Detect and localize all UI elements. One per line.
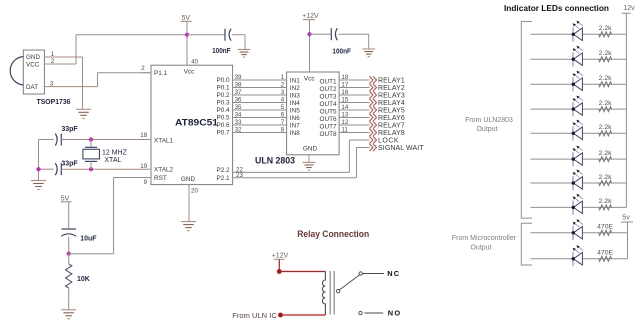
ground under TSOP [76, 109, 91, 118]
svg-text:P0.5: P0.5 [216, 115, 230, 122]
svg-text:RELAY2: RELAY2 [378, 85, 405, 92]
label 33pF bottom [61, 160, 78, 167]
pin number 2 [281, 82, 285, 89]
pin name P0.1 [216, 85, 230, 92]
junction node RST [67, 252, 71, 256]
svg-text:P0.7: P0.7 [216, 130, 230, 137]
svg-text:NO: NO [388, 309, 402, 318]
capacitor C1 33pF top [39, 134, 92, 146]
LED D4 [572, 96, 583, 117]
power 5v bus [621, 214, 633, 258]
wire P0.1 to IN2 [233, 87, 287, 89]
svg-text:P0.1: P0.1 [216, 85, 230, 92]
terminal NC [359, 269, 400, 278]
pin name ULN Vcc [304, 75, 315, 82]
svg-text:5: 5 [281, 104, 285, 111]
pin number 40 Vcc [191, 59, 198, 66]
pin number 37 [235, 89, 242, 96]
ground under MCU [181, 222, 196, 231]
pin name IN5 [290, 107, 300, 114]
pin number 23 [236, 172, 243, 179]
svg-text:From Microcontroller: From Microcontroller [452, 235, 517, 242]
pin name XTAL2 [154, 167, 174, 174]
terminal NO [359, 309, 402, 318]
wire P0.0 to IN1 [233, 79, 287, 81]
svg-text:Relay Connection: Relay Connection [297, 229, 369, 240]
LED D3 [572, 71, 583, 92]
svg-text:1: 1 [281, 74, 285, 81]
svg-text:2.2k: 2.2k [599, 50, 612, 57]
pin number 19 XTAL2 [140, 163, 147, 170]
wire P2.1 to SIGNAL WAIT [233, 148, 370, 178]
svg-text:ULN 2803: ULN 2803 [255, 156, 295, 166]
svg-text:From ULN2803: From ULN2803 [465, 117, 513, 124]
svg-text:OUT7: OUT7 [320, 123, 337, 130]
svg-text:Vcc: Vcc [184, 69, 195, 76]
junction node 5V rail [185, 33, 189, 37]
net flag RELAY3 [370, 91, 405, 99]
svg-text:RELAY3: RELAY3 [378, 92, 405, 99]
svg-text:3: 3 [281, 89, 285, 96]
wire LED row 1 [531, 33, 627, 35]
LED D6 [572, 146, 583, 167]
wire +12V to coil top [279, 271, 325, 273]
relay coil L1 [322, 272, 325, 316]
svg-text:From ULN IC: From ULN IC [232, 313, 276, 320]
svg-text:4: 4 [281, 97, 285, 104]
pin number 20 GND [191, 188, 198, 195]
capacitor 100nF left [225, 29, 231, 41]
wire XTAL2 net [91, 168, 151, 170]
pin number 38 [235, 82, 242, 89]
power 5V supply top [181, 15, 192, 65]
LED D2 [572, 46, 583, 67]
wire P0.3 to IN4 [233, 102, 287, 104]
pin name RST [154, 175, 167, 182]
wire OUT6 to RELAY6 [339, 117, 369, 119]
pin number 9 RST [144, 179, 148, 186]
pin name XTAL1 [154, 137, 174, 144]
junction node From ULN IC [278, 313, 283, 318]
pin name OUT6 [320, 116, 337, 123]
svg-text:VCC: VCC [26, 61, 40, 68]
wire LED row 10 [531, 258, 628, 260]
svg-text:100nF: 100nF [212, 48, 231, 55]
pin number 4 [281, 97, 285, 104]
pin number 39 [235, 74, 242, 81]
svg-text:Vcc: Vcc [304, 75, 315, 82]
wire OUT2 to RELAY2 [339, 87, 369, 89]
pin number 22 [236, 167, 243, 174]
wire OUT1 to RELAY1 [339, 79, 369, 81]
driver U2 ULN2803 body [287, 72, 340, 155]
svg-text:IN6: IN6 [290, 115, 300, 122]
pin number 1 [281, 74, 285, 81]
svg-text:GND: GND [303, 146, 318, 153]
pin number 5 [281, 104, 285, 111]
power 5V supply reset [61, 195, 72, 229]
svg-text:470E: 470E [597, 250, 613, 257]
label From Microcontroller Output [452, 235, 517, 252]
svg-text:7: 7 [281, 119, 285, 126]
pin number 33 [235, 119, 242, 126]
svg-text:2.2k: 2.2k [599, 174, 612, 181]
wire 100nF to ground [232, 35, 245, 50]
ground under 10K [61, 310, 76, 319]
svg-text:IN4: IN4 [290, 100, 300, 107]
label 100nF left [212, 48, 231, 55]
LED D5 [572, 120, 583, 141]
pin name IN7 [290, 122, 300, 129]
svg-text:Output: Output [476, 126, 497, 133]
pin name ULN GND [303, 146, 318, 153]
pin name GND [181, 176, 196, 183]
wire ULN GND to ground [308, 155, 310, 162]
net flag RELAY4 [370, 99, 405, 107]
svg-text:P0.3: P0.3 [216, 100, 230, 107]
wire TSOP GND pin1 to ground [44, 57, 82, 109]
pin name P0.7 [216, 130, 230, 137]
resistor 470E row 9 [597, 224, 613, 236]
pin number 2 P1.1 [141, 65, 151, 73]
pin number 2 [51, 58, 55, 65]
svg-text:10K: 10K [77, 276, 90, 283]
net flag RELAY5 [370, 106, 405, 114]
resistor 2.2k row 5 [599, 124, 613, 136]
wire P2.2 to LOCK [233, 140, 370, 172]
pin name OUT1 [320, 78, 337, 85]
pin number 34 [235, 112, 242, 119]
svg-text:OUT2: OUT2 [320, 86, 337, 93]
pin number 18 XTAL1 [140, 132, 147, 139]
resistor 2.2k row 8 [599, 198, 613, 210]
svg-text:IN7: IN7 [290, 122, 300, 129]
svg-text:2.2k: 2.2k [599, 100, 612, 107]
svg-text:SIGNAL WAIT: SIGNAL WAIT [378, 145, 424, 152]
wire ULN IC to coil bottom [281, 314, 326, 316]
svg-text:GND: GND [26, 54, 40, 61]
label 12 MHZ XTAL [102, 149, 128, 164]
svg-text:2.2k: 2.2k [599, 198, 612, 205]
wire TSOP DAT pin3 to P1.1 [44, 73, 151, 87]
ground right of 100nF right [362, 49, 375, 57]
net flag RELAY6 [370, 114, 405, 122]
svg-text:100nF: 100nF [332, 48, 351, 55]
capacitor 100nF right [331, 28, 337, 40]
svg-text:2: 2 [281, 82, 285, 89]
pin name OUT3 [320, 93, 337, 100]
svg-text:470E: 470E [597, 224, 613, 231]
pin name P2.2 [216, 167, 230, 174]
resistor 2.2k row 3 [599, 75, 613, 87]
label 10uF [80, 235, 97, 242]
pin number 3 [281, 89, 285, 96]
svg-text:P0.0: P0.0 [216, 77, 230, 84]
svg-text:18: 18 [140, 132, 147, 139]
svg-text:RELAY4: RELAY4 [378, 100, 405, 107]
power +12V relay [272, 253, 289, 272]
pin name P0.3 [216, 100, 230, 107]
LED D10 [572, 245, 583, 266]
pin name P1.1 [154, 70, 168, 77]
pin number 13 [341, 112, 348, 119]
pin name P0.2 [216, 92, 230, 99]
junction node XTAL1 [89, 137, 93, 141]
LED D1 [572, 21, 583, 42]
wire LED row 3 [531, 83, 627, 85]
pin number 16 [341, 89, 348, 96]
net flag LOCK [370, 136, 400, 144]
label From ULN IC [232, 313, 276, 320]
wire OUT5 to RELAY5 [339, 109, 369, 111]
svg-text:RST: RST [154, 175, 167, 182]
wire P0.2 to IN3 [233, 94, 287, 96]
ground right of 100nF left [238, 50, 251, 58]
svg-text:RELAY5: RELAY5 [378, 107, 405, 114]
svg-text:OUT8: OUT8 [320, 131, 337, 138]
wire P0.5 to IN6 [233, 117, 287, 119]
svg-text:RELAY7: RELAY7 [378, 122, 405, 129]
pin number 15 [341, 97, 348, 104]
resistor 2.2k row 2 [599, 50, 613, 62]
ground under ULN [303, 162, 316, 170]
pin number 36 [235, 97, 242, 104]
pin number 17 [341, 82, 348, 89]
svg-text:9: 9 [144, 179, 148, 186]
pin number 8 [281, 127, 285, 134]
svg-text:XTAL1: XTAL1 [154, 137, 174, 144]
title Relay Connection [297, 229, 369, 240]
wire XTAL1 net [91, 139, 151, 141]
wire 5V rail to 100nF [187, 34, 225, 36]
switch pivot [337, 290, 340, 293]
svg-text:10uF: 10uF [80, 235, 97, 242]
resistor 2.2k row 6 [599, 150, 613, 162]
pin number 14 [341, 104, 348, 111]
svg-text:40: 40 [191, 59, 198, 66]
svg-text:12v: 12v [623, 5, 635, 12]
net flag RELAY1 [370, 76, 405, 84]
microcontroller U1 AT89C51 body [151, 65, 233, 184]
svg-text:IN2: IN2 [290, 85, 300, 92]
resistor 470E row 10 [597, 250, 613, 262]
pin name P2.1 [216, 175, 230, 182]
svg-text:LOCK: LOCK [378, 137, 399, 144]
pin name IN3 [290, 92, 300, 99]
svg-text:TSOP1736: TSOP1736 [37, 97, 71, 106]
svg-text:OUT4: OUT4 [320, 101, 337, 108]
bracket From ULN2803 outputs [521, 22, 532, 219]
wire P0.7 to IN8 [233, 132, 287, 134]
label From ULN2803 Output [465, 117, 513, 133]
net flag RELAY7 [370, 121, 405, 129]
svg-text:RELAY6: RELAY6 [378, 115, 405, 122]
pin name IN8 [290, 130, 300, 137]
wire LED row 5 [531, 132, 627, 134]
svg-text:20: 20 [191, 188, 198, 195]
wire MCU GND pin20 down [188, 185, 190, 221]
svg-text:OUT1: OUT1 [320, 78, 337, 85]
svg-text:GND: GND [181, 176, 196, 183]
svg-text:IN1: IN1 [290, 77, 300, 84]
svg-text:P2.2: P2.2 [216, 167, 230, 174]
net flag RELAY8 [370, 129, 405, 137]
bracket From Microcontroller outputs [521, 223, 532, 265]
svg-text:OUT3: OUT3 [320, 93, 337, 100]
LED D7 [572, 170, 583, 191]
wire +12V rail to 100nF right [310, 33, 332, 35]
LED D8 [572, 194, 583, 215]
svg-text:2.2k: 2.2k [599, 150, 612, 157]
svg-text:8: 8 [281, 127, 285, 134]
svg-text:P0.2: P0.2 [216, 92, 230, 99]
wire OUT7 to RELAY7 [339, 124, 369, 126]
wire LED row 9 [531, 232, 628, 234]
pin name IN1 [290, 77, 300, 84]
pin number 6 [281, 112, 285, 119]
pin number 3 [50, 81, 54, 88]
svg-text:2.2k: 2.2k [599, 25, 612, 32]
svg-text:12 MHZ: 12 MHZ [102, 149, 128, 156]
svg-text:Indicator LEDs connection: Indicator LEDs connection [504, 3, 609, 13]
svg-text:P1.1: P1.1 [154, 70, 168, 77]
junction node relay +12V [277, 269, 282, 274]
pin name IN2 [290, 85, 300, 92]
label 33pF top [61, 126, 78, 133]
wire P0.4 to IN5 [233, 109, 287, 111]
svg-text:33pF: 33pF [61, 160, 78, 167]
pin name OUT5 [320, 108, 337, 115]
wire LED row 2 [531, 58, 627, 60]
switch arm [340, 275, 360, 290]
net flag RELAY2 [370, 84, 405, 92]
label 10K [77, 276, 90, 283]
pin number 11 [341, 127, 348, 134]
power +12V supply [302, 13, 319, 72]
pin name P0.5 [216, 115, 230, 122]
svg-text:P2.1: P2.1 [216, 175, 230, 182]
LED D9 [572, 219, 583, 240]
wire LED row 4 [531, 108, 627, 110]
svg-text:IN8: IN8 [290, 130, 300, 137]
pin number 7 [281, 119, 285, 126]
pin number 35 [235, 104, 242, 111]
svg-text:OUT5: OUT5 [320, 108, 337, 115]
wire OUT8 to RELAY8 [339, 132, 369, 134]
label ULN 2803 [255, 156, 295, 166]
svg-text:NC: NC [387, 269, 400, 278]
svg-text:RELAY1: RELAY1 [378, 77, 405, 84]
resistor 2.2k row 4 [599, 100, 613, 112]
label 100nF right [332, 48, 351, 55]
svg-text:33pF: 33pF [61, 126, 78, 133]
pin name Vcc [184, 69, 195, 76]
svg-text:DAT: DAT [26, 84, 38, 91]
wire 100nF right to ground [339, 34, 369, 48]
power 12v bus [622, 5, 635, 207]
pin name OUT2 [320, 86, 337, 93]
net flag SIGNAL WAIT [370, 144, 425, 152]
pin name OUT8 [320, 131, 337, 138]
svg-text:IN5: IN5 [290, 107, 300, 114]
junction node XTAL2 [89, 167, 93, 171]
capacitor C2 33pF bottom [39, 163, 92, 175]
svg-text:XTAL: XTAL [104, 157, 121, 164]
resistor R1 10K [66, 254, 72, 310]
svg-text:XTAL2: XTAL2 [154, 167, 174, 174]
capacitor C3 10uF [61, 229, 76, 254]
ground under 33pF rail [31, 181, 46, 190]
svg-text:2.2k: 2.2k [599, 75, 612, 82]
pin number 12 [341, 119, 348, 126]
svg-text:OUT6: OUT6 [320, 116, 337, 123]
pin name OUT4 [320, 101, 337, 108]
wire left rail of 33pF caps to ground [38, 140, 40, 181]
wire P0.6 to IN7 [233, 124, 287, 126]
relay core lines [330, 271, 334, 315]
pin number 1 [51, 51, 55, 58]
pin number 32 [235, 127, 242, 134]
svg-text:Output: Output [470, 245, 491, 252]
wire OUT4 to RELAY4 [339, 102, 369, 104]
wire OUT3 to RELAY3 [339, 94, 369, 96]
svg-text:2: 2 [141, 65, 145, 72]
svg-text:IN3: IN3 [290, 92, 300, 99]
pin number 18 [341, 74, 348, 81]
wire TSOP VCC pin2 to 5V rail [44, 35, 187, 64]
title Indicator LEDs connection [504, 3, 609, 13]
svg-text:2.2k: 2.2k [599, 124, 612, 131]
pin name P0.4 [216, 107, 230, 114]
pin name P0.6 [216, 122, 230, 129]
svg-text:+12V: +12V [272, 253, 289, 260]
svg-text:P0.6: P0.6 [216, 122, 230, 129]
IR receiver TSOP1736 [10, 50, 44, 94]
pin name P0.0 [216, 77, 230, 84]
label TSOP1736 [37, 97, 71, 106]
pin name IN6 [290, 115, 300, 122]
junction node 33pF ground rail [36, 167, 40, 171]
svg-text:P0.4: P0.4 [216, 107, 230, 114]
crystal X1 12MHZ [83, 140, 100, 170]
svg-text:RELAY8: RELAY8 [378, 130, 405, 137]
svg-text:5v: 5v [622, 214, 630, 221]
resistor 2.2k row 1 [599, 25, 613, 37]
wire LED row 7 [531, 182, 627, 184]
pin labels GND VCC DAT [26, 54, 40, 91]
svg-text:6: 6 [281, 112, 285, 119]
svg-text:AT89C51: AT89C51 [175, 118, 218, 128]
wire LED row 6 [531, 158, 627, 160]
resistor 2.2k row 7 [599, 174, 613, 186]
wire LED row 8 [531, 206, 627, 208]
junction node +12V rail [307, 32, 311, 36]
pin name OUT7 [320, 123, 337, 130]
pin name IN4 [290, 100, 300, 107]
wire RST net to pin 9 [69, 178, 151, 254]
